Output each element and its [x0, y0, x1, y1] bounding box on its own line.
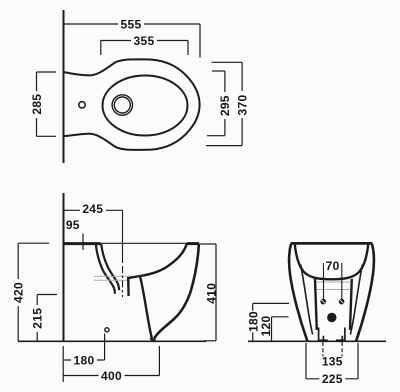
hidden trap line lower (gray) [94, 279, 130, 281]
channel left wall (back view) [315, 279, 317, 330]
top rim line (back view) [291, 242, 373, 245]
dimension 285 [30, 72, 56, 136]
drain hole double circle (top view) [112, 95, 132, 115]
channel right wall (back view) [350, 279, 352, 330]
thick back rim section [64, 242, 101, 245]
svg-text:295: 295 [218, 95, 232, 116]
thick front rim section [187, 242, 199, 245]
dimension 555 [64, 17, 201, 57]
dimension 135 extension dashes [322, 342, 324, 357]
svg-text:555: 555 [121, 17, 142, 31]
svg-text:120: 120 [259, 316, 273, 337]
dimension 70 label [324, 259, 340, 273]
dimension 180 (side view) [63, 334, 104, 368]
fixing screw left (back view) [320, 299, 326, 305]
dimension 95 [66, 218, 83, 250]
left inner pedestal edge (back view) [301, 265, 313, 335]
pedestal foot (side view) [151, 338, 156, 340]
right inner pedestal edge (back view) [350, 265, 362, 335]
hidden trap line upper (gray) [94, 275, 139, 277]
centerline dash-dot (side view) [122, 210, 124, 263]
fixing hole circle (side view) [105, 328, 109, 332]
rim channel inner curve (side view) [101, 244, 119, 290]
wall extension line below floor [62, 346, 64, 382]
outer front profile (side view) [154, 244, 199, 339]
foot bracket left (back view) [319, 328, 328, 341]
hidden gray line upper (back view) [317, 281, 350, 283]
floor line (back view) [248, 340, 386, 342]
dimension 225 [306, 343, 358, 386]
dimension 410 [200, 244, 219, 341]
right outer profile (back view) [356, 244, 374, 341]
wall line (side view) [63, 193, 65, 341]
faucet hole (top view) [79, 102, 85, 108]
svg-text:285: 285 [30, 94, 44, 115]
svg-text:420: 420 [12, 282, 26, 303]
dimension 370 [206, 62, 249, 145]
sump left wall (side view) [127, 278, 130, 297]
dimension 180 (back view) [247, 303, 290, 341]
dimension 400 [63, 346, 159, 383]
svg-text:95: 95 [66, 218, 80, 232]
rim channel outer curve (side view) [96, 244, 115, 294]
bowl bottom and interior front wall (side view) [127, 244, 187, 279]
dimension 295 [207, 71, 232, 136]
foot bracket right (back view) [336, 328, 345, 341]
top surface line (side view) [64, 242, 200, 244]
dimension 245 [64, 202, 123, 216]
svg-text:410: 410 [205, 283, 219, 304]
svg-text:225: 225 [322, 372, 343, 386]
dimension 70 extension right [341, 263, 343, 302]
svg-text:245: 245 [82, 202, 103, 216]
left outer profile (back view) [289, 244, 307, 341]
rim U curve (back view) [295, 245, 368, 280]
drain filled circle (back view) [327, 313, 336, 322]
floor line (side view) [18, 340, 206, 342]
sump right wall (side view) [140, 276, 152, 339]
inner bowl oval (top view) [103, 76, 188, 136]
svg-text:355: 355 [134, 34, 155, 48]
dimension 420 [12, 243, 50, 341]
fixing screw right (back view) [339, 299, 345, 305]
svg-text:135: 135 [322, 355, 343, 369]
svg-text:370: 370 [235, 95, 249, 116]
bidet body outline (top view) [64, 59, 200, 150]
svg-text:215: 215 [31, 308, 45, 329]
wall line (top view) [63, 10, 65, 163]
svg-text:180: 180 [74, 353, 95, 367]
svg-text:400: 400 [101, 369, 122, 383]
hidden gray line lower (back view) [317, 289, 350, 291]
svg-text:70: 70 [326, 259, 340, 273]
dimension 355 [101, 34, 188, 55]
dimension 70 extension left [323, 263, 325, 302]
dimension 120 (back view) [259, 315, 289, 341]
dimension 215 [31, 295, 58, 342]
